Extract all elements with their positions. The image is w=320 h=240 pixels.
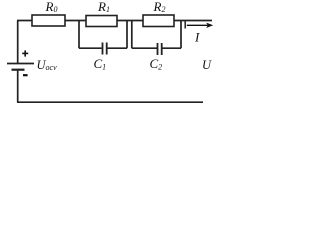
capacitor C2 [158,43,162,55]
wire: top rail [17,20,212,22]
terminal tick at output node [184,21,186,29]
wire: left vertical upper segment [17,21,19,64]
svg-text:Uocv: Uocv [37,58,58,72]
wire: RC2 bottom left segment [132,47,157,49]
current arrow I [187,23,213,28]
svg-text:C1: C1 [94,56,107,71]
battery U_ocv: short plate (-) [12,69,25,71]
capacitor C1 [103,43,107,55]
wire: RC2 left branch vertical [131,21,133,49]
wire: junction drop at node between R0 and R1 [78,21,80,49]
wire: bottom rail [17,101,203,103]
resistor R2 [143,15,174,27]
svg-text:R0: R0 [45,0,58,14]
wire: RC1 right branch vertical [126,21,128,49]
wire: RC2 bottom right segment [162,47,181,49]
svg-text:C2: C2 [150,56,163,71]
battery - polarity mark [23,74,28,76]
svg-text:R2: R2 [153,0,166,14]
svg-text:R1: R1 [97,0,110,14]
wire: left vertical lower segment [17,70,19,103]
wire: RC1 bottom left segment [79,47,102,49]
battery + polarity mark [22,50,28,56]
resistor R0 [32,15,65,26]
svg-text:I: I [194,30,200,45]
resistor R1 [86,16,117,27]
wire: RC2 right branch vertical [180,21,182,49]
svg-text:U: U [202,58,212,72]
battery U_ocv: long plate (+) [7,63,34,65]
wire: RC1 bottom right segment [107,47,127,49]
